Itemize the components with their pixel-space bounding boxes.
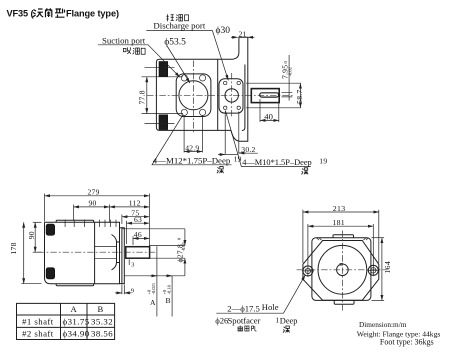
- dimension 213: [303, 204, 379, 263]
- label CJK 排油口: [166, 14, 188, 21]
- svg-text:46: 46: [134, 230, 142, 239]
- key slot: [260, 93, 279, 97]
- dimension 112: [109, 199, 149, 208]
- svg-text:A: A: [71, 304, 78, 314]
- body internal face line: [217, 59, 219, 130]
- corner chamfer mark left: [317, 238, 322, 240]
- dimension A/B line: [124, 246, 185, 316]
- svg-text:3: 3: [131, 262, 134, 269]
- svg-text:Discharge port: Discharge port: [153, 21, 205, 31]
- front flange plate (side): [120, 228, 125, 284]
- dimension 21: [231, 29, 254, 38]
- rear vertical centerline: [341, 231, 343, 311]
- CJK deep 深 (M12): [217, 167, 224, 174]
- plate hole TR: [237, 81, 240, 84]
- side view centerline: [38, 251, 157, 253]
- port center mark bottom: [145, 123, 175, 125]
- svg-text:90: 90: [27, 231, 36, 239]
- shaft (side view): [126, 247, 150, 259]
- label 4-M12*1.75P-Deep 19: [152, 115, 242, 174]
- plate vertical centerline: [231, 73, 233, 118]
- dimension 63: [127, 215, 150, 244]
- shaft hole: [337, 264, 349, 276]
- port center mark top: [145, 67, 175, 69]
- svg-text:Hole: Hole: [262, 302, 279, 312]
- bolt hole right cross: [367, 264, 379, 276]
- svg-text:30.2: 30.2: [241, 145, 255, 154]
- svg-text:2—ϕ17.5: 2—ϕ17.5: [227, 303, 259, 313]
- svg-text:58.7: 58.7: [295, 90, 304, 104]
- dimension 9: [115, 285, 134, 295]
- body front face line: [242, 65, 245, 131]
- svg-text:0: 0: [283, 61, 288, 64]
- svg-text:Dimension:m/m: Dimension:m/m: [359, 320, 407, 329]
- keyway notch: [340, 263, 343, 265]
- title CJK 蘭: [46, 8, 52, 17]
- side view body: [45, 222, 120, 283]
- top tab: [333, 235, 354, 238]
- svg-text:77.8: 77.8: [138, 90, 147, 104]
- dimension 178: [9, 222, 41, 283]
- svg-text:-0.021: -0.021: [151, 283, 156, 295]
- plate hole BL: [224, 106, 227, 109]
- svg-text:63: 63: [134, 215, 142, 224]
- side port block (bottom): [46, 268, 54, 279]
- svg-text:VF35 (: VF35 (: [7, 8, 35, 18]
- svg-text:178: 178: [9, 242, 18, 254]
- flange hexagon with ears: [303, 241, 379, 301]
- svg-text:40: 40: [264, 112, 273, 122]
- svg-text:A: A: [150, 298, 156, 307]
- top mounting strip: [56, 220, 93, 222]
- leader phi53.5: [167, 46, 190, 84]
- labels of top view: [98, 14, 327, 174]
- svg-text:279: 279: [88, 188, 100, 197]
- dimension 3: [129, 259, 134, 268]
- svg-text:Deep: Deep: [280, 317, 298, 326]
- svg-text:90: 90: [89, 199, 97, 208]
- svg-text:42.9: 42.9: [185, 143, 199, 152]
- svg-text:-0.05: -0.05: [181, 241, 186, 251]
- title CJK 型: [55, 9, 65, 18]
- label CJK 吸油口: [123, 47, 145, 54]
- dimension 46: [133, 230, 149, 245]
- svg-text:-0.18: -0.18: [166, 284, 171, 294]
- flange bolt hole TR: [200, 75, 206, 81]
- pump body (top view): [156, 37, 247, 141]
- dimension 58.7: [246, 83, 304, 108]
- svg-text:ϕ34.90: ϕ34.90: [63, 329, 90, 339]
- leader discharge port: [146, 31, 228, 81]
- bolt hole right inner: [371, 268, 376, 273]
- key line extensions: [282, 93, 293, 97]
- title CJK 法: [33, 9, 43, 17]
- dimension 7.95: [281, 55, 293, 101]
- front plate with 4 tapped holes: [219, 79, 243, 113]
- svg-text:B: B: [98, 304, 104, 314]
- rear horizontal centerline: [297, 269, 389, 271]
- corner chamfer mark right: [364, 238, 369, 240]
- flange bolt hole BL: [181, 109, 187, 115]
- rear/front split line: [94, 222, 96, 283]
- svg-text:21: 21: [239, 29, 247, 38]
- dimension 75: [122, 208, 149, 224]
- top edge tick marks: [65, 220, 116, 227]
- svg-text:#2 shaft: #2 shaft: [22, 329, 54, 339]
- svg-text:35.32: 35.32: [91, 316, 113, 326]
- leader 2-phi17.5 hole: [216, 275, 305, 313]
- dimension 40: [260, 99, 279, 122]
- svg-text:Suction port: Suction port: [102, 35, 146, 45]
- bolt hole left cross: [302, 265, 314, 277]
- mounting flange plate: [176, 74, 211, 117]
- dimension 90 (height, left): [27, 222, 42, 252]
- front plate center circle phi30: [225, 89, 238, 102]
- flange bolt hole TL: [181, 75, 187, 81]
- dimension 77.8: [138, 77, 184, 114]
- main horizontal centerline: [147, 94, 293, 96]
- svg-text:4—M12*1.75P–Deep: 4—M12*1.75P–Deep: [153, 155, 231, 165]
- svg-text:Foot type: 36kgs: Foot type: 36kgs: [380, 338, 434, 347]
- label 4-M10*1.5P-Deep 19: [225, 111, 327, 175]
- bottom tab: [334, 300, 354, 304]
- dimension 90 (length): [74, 199, 110, 222]
- dimension phi27.8: [122, 229, 186, 276]
- shaft (top view): [251, 89, 279, 103]
- side port block (top): [46, 224, 54, 235]
- svg-text:9: 9: [131, 287, 134, 294]
- CJK deep 深 (M10): [301, 168, 308, 175]
- svg-text:0: 0: [177, 237, 182, 240]
- svg-text:181: 181: [332, 218, 345, 227]
- shaft table: [17, 303, 115, 339]
- svg-text:#1 shaft: #1 shaft: [22, 316, 54, 326]
- svg-text:4—M10*1.5P–Deep: 4—M10*1.5P–Deep: [242, 158, 312, 167]
- suction port block (top): [159, 62, 168, 77]
- pilot circle phi53.5: [179, 81, 208, 110]
- dimension 181: [308, 218, 373, 265]
- dimension 279: [45, 188, 150, 247]
- label CJK 魚眼孔: [238, 326, 257, 332]
- leader suction port: [98, 45, 180, 77]
- dimension 42.9: [184, 116, 202, 153]
- bolt hole right outer: [368, 265, 378, 275]
- svg-text:213: 213: [333, 204, 346, 213]
- bolt hole left outer: [303, 266, 313, 276]
- dimension 164: [372, 238, 393, 301]
- flange vertical centerline: [192, 61, 194, 134]
- large pilot circle: [318, 245, 367, 294]
- svg-text:38.56: 38.56: [91, 329, 113, 339]
- rear body square: [312, 238, 371, 301]
- svg-text:B: B: [166, 296, 171, 305]
- svg-text:164: 164: [383, 261, 392, 274]
- rotor lines: [95, 246, 117, 258]
- svg-text:ϕ31.75: ϕ31.75: [63, 316, 90, 326]
- svg-text:112: 112: [129, 199, 141, 208]
- svg-text:19: 19: [319, 157, 327, 166]
- svg-text:Spotfacer: Spotfacer: [228, 316, 261, 326]
- bolt hole left inner: [305, 268, 310, 273]
- suction port block (bottom): [159, 115, 168, 130]
- svg-text:Flange type): Flange type): [66, 8, 119, 18]
- svg-text:ϕ53.5: ϕ53.5: [164, 37, 186, 47]
- svg-text:19: 19: [234, 155, 242, 164]
- label CJK 深 (deep): [283, 326, 290, 333]
- bearing taper: [112, 235, 120, 271]
- svg-text:-0.02: -0.02: [288, 67, 293, 76]
- dimension 30.2: [218, 112, 258, 155]
- bottom mounting strip: [56, 284, 93, 286]
- plate hole BR: [237, 106, 240, 109]
- svg-text:ϕ30: ϕ30: [216, 26, 231, 36]
- flange bolt hole BR: [200, 109, 206, 115]
- plate hole TL: [224, 81, 227, 84]
